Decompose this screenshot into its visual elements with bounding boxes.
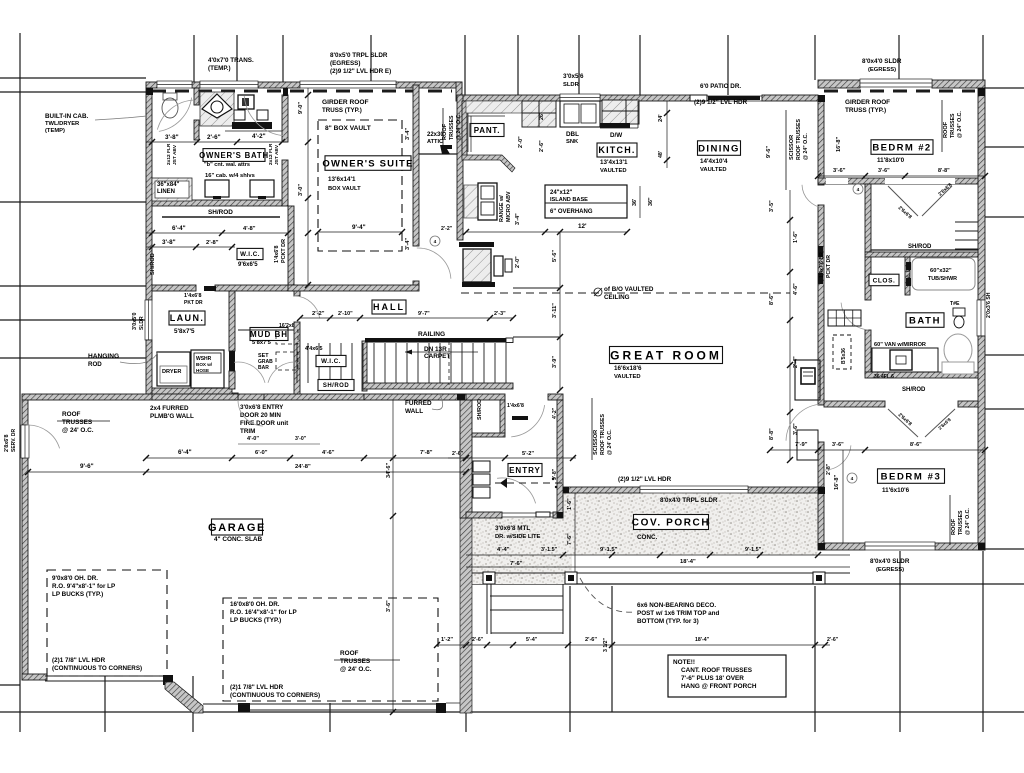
svg-text:LP BUCKS (TYP.): LP BUCKS (TYP.) [52,591,103,598]
bath seat boxes [234,110,245,120]
svg-text:2'8x6'8: 2'8x6'8 [4,434,10,452]
bedrm2 dim line y176 [818,175,985,177]
wall jog mud [232,393,238,400]
svg-text:4'-4": 4'-4" [497,547,510,553]
wall owners suite east seg2 [413,281,419,287]
svg-text:SH/ROD: SH/ROD [323,383,350,389]
svg-text:BEDRM #3: BEDRM #3 [881,471,942,482]
wall top-B seg3 [762,95,818,101]
svg-text:W.I.C.: W.I.C. [240,251,260,258]
svg-text:BAR: BAR [258,365,269,371]
entry front door w/ side lite [502,512,553,514]
svg-text:34'-6": 34'-6" [386,462,392,478]
wall east upper [978,88,985,300]
svg-text:7'-6" PLUS 18' OVER: 7'-6" PLUS 18' OVER [681,675,744,682]
svg-text:9'-1.5": 9'-1.5" [600,547,618,553]
svg-text:LAUN.: LAUN. [170,313,205,323]
porch dim line y567 [563,566,850,568]
ext line bedrm2 mid [898,35,900,80]
label BATH [906,313,944,328]
svg-text:6'-4": 6'-4" [172,225,186,232]
svg-text:(2)9 1/2" LVL HDR: (2)9 1/2" LVL HDR [694,99,748,106]
svg-text:9'-0": 9'-0" [298,102,304,114]
svg-text:2'-6": 2'-6" [452,451,464,457]
fireplace [795,360,820,400]
svg-text:(2)9 1/2" LVL HDR: (2)9 1/2" LVL HDR [618,476,672,483]
svg-text:ROOF: ROOF [951,518,957,535]
svg-text:BOX VAULT: BOX VAULT [328,186,361,192]
svg-text:4'4x6'5: 4'4x6'5 [305,346,323,352]
svg-text:B'5x36: B'5x36 [841,348,847,364]
svg-text:13'6x14'1: 13'6x14'1 [328,176,356,183]
wall bedrm2 closet west [865,184,871,252]
svg-text:3'-0": 3'-0" [295,436,307,442]
grid right y88 [985,87,1024,89]
grid line below garage east wall [465,713,467,732]
svg-text:PCKT DR: PCKT DR [281,239,287,263]
svg-text:SH/ROD: SH/ROD [908,244,932,250]
garage door2 dashed rect [223,598,438,701]
vaulted ceiling dashed centerline [461,292,790,294]
patio door opening [690,95,762,97]
ext line dining 1 [639,35,641,95]
entry dims [466,554,563,556]
ext line kitchen west [464,35,466,95]
wall top-C seg2 [932,80,985,88]
svg-text:60" VAN w/MIRROR: 60" VAN w/MIRROR [874,342,926,348]
svg-text:2'-3": 2'-3" [494,311,506,317]
svg-text:LP BUCKS (TYP.): LP BUCKS (TYP.) [230,617,281,624]
girder bearing dash line wing A [152,90,452,93]
hall dashed linen [833,335,851,369]
svg-text:4'-2": 4'-2" [252,133,266,140]
svg-text:2'-2": 2'-2" [441,226,453,232]
svg-text:PKT DR: PKT DR [184,300,203,306]
corner block garage door2 right [436,703,446,713]
svg-text:(EGRESS): (EGRESS) [330,60,360,67]
svg-text:7'-9": 7'-9" [795,442,808,448]
ext line shower wall [236,35,238,82]
bedrm3 dim line y450 [770,449,985,451]
svg-text:3'-6": 3'-6" [793,423,799,435]
svg-text:HANGING: HANGING [88,353,119,360]
svg-text:BUILT-IN CAB.: BUILT-IN CAB. [45,113,89,120]
ext line bedrm2 west [814,35,816,80]
bath door arc [841,303,868,330]
svg-text:16'6x18'6: 16'6x18'6 [614,365,642,372]
wall top-A seg2 [192,82,200,88]
door garage service [21,425,29,458]
label ENTRY [508,464,542,477]
svg-text:3'0x5'0: 3'0x5'0 [132,312,138,330]
svg-text:TRIM: TRIM [240,428,255,435]
svg-text:of B/O VAULTED: of B/O VAULTED [604,286,654,293]
window bedrm2 egress sldr [860,79,932,87]
porch slab edge line y573 [466,572,850,574]
svg-text:1'4x7'6 BR: 1'4x7'6 BR [819,252,825,278]
svg-text:6'-4": 6'-4" [178,449,192,456]
wall top-B seg2 [600,95,690,101]
wall great room south seg1 [563,487,640,493]
wall top-A seg1 [146,82,157,88]
svg-text:CLOS.: CLOS. [873,277,896,284]
garage dim line y458 [146,457,466,459]
svg-text:1'4x6'8: 1'4x6'8 [507,403,524,409]
wall garage south seg1 [22,674,47,680]
svg-text:TWL/DRYER: TWL/DRYER [45,121,80,127]
wall east lower [978,336,985,550]
fridge hatch [464,185,478,218]
wall garage west seg2 [22,458,28,680]
svg-text:8'0x5'0 TRPL SLDR: 8'0x5'0 TRPL SLDR [330,52,388,59]
porch dim verticals [574,493,576,573]
wall garage north [22,394,466,400]
svg-text:HOSE: HOSE [196,368,209,373]
wall kitchen west seg1 [457,95,463,240]
svg-text:2'-6": 2'-6" [827,637,839,643]
svg-text:ROOF: ROOF [943,121,949,138]
cabinet below fireplace [797,430,818,460]
service door arc [27,425,60,448]
svg-text:SH/ROD: SH/ROD [208,209,233,216]
wall top-A seg4 [396,82,462,88]
svg-text:18'-4": 18'-4" [695,637,710,643]
corner blocks [146,88,153,95]
pocket door mud [229,351,235,371]
svg-text:13'4x13'1: 13'4x13'1 [600,159,628,166]
svg-text:24': 24' [658,114,664,122]
grid line left y685 [0,684,20,686]
svg-text:3'-6": 3'-6" [832,442,844,448]
svg-text:2'-6": 2'-6" [207,134,221,141]
svg-text:4: 4 [851,476,854,482]
svg-text:2'-2": 2'-2" [312,311,325,317]
dim line owners bath [146,141,288,143]
svg-text:VAULTED: VAULTED [700,167,727,173]
covered porch concrete stipple [563,493,818,555]
svg-text:(EGRESS): (EGRESS) [876,567,904,573]
svg-text:9'0x8'0 OH. DR.: 9'0x8'0 OH. DR. [52,575,98,582]
svg-text:3'-4": 3'-4" [405,238,411,250]
svg-text:ROOF TRUSSES: ROOF TRUSSES [796,119,802,160]
wall bedrm3 closet front seg1 [824,401,885,407]
ext line toilet wall [193,35,195,82]
svg-text:TUB/SHWR: TUB/SHWR [928,276,957,282]
wall bedwing west seg3 [818,442,824,487]
svg-text:4'-6": 4'-6" [322,450,335,456]
grid right y355 [985,354,1024,356]
wall bath closet east [905,257,910,295]
svg-text:9'-4": 9'-4" [352,224,366,231]
svg-text:GREAT ROOM: GREAT ROOM [610,348,722,362]
svg-text:ATTIC: ATTIC [427,139,443,145]
svg-text:9'6x6'5: 9'6x6'5 [238,262,258,268]
wall bath west seg2 [865,330,871,375]
owners shower hatched [200,92,234,126]
svg-text:1'-2": 1'-2" [441,637,453,643]
svg-text:DR. w/SIDE LITE: DR. w/SIDE LITE [495,534,541,540]
stair risers [296,343,298,383]
svg-text:9'-1.5": 9'-1.5" [745,547,762,553]
vanity sink 1 [205,180,229,197]
svg-text:DRYER: DRYER [162,369,181,375]
grid line left y78 [0,77,146,79]
wall garage east / entry west [460,400,472,518]
label PANT [470,124,504,137]
ext line kitchen window [578,35,580,95]
svg-text:@ 24' O.C.: @ 24' O.C. [607,429,613,455]
wall bath south [865,372,978,378]
wall mud east seg1 [294,287,300,296]
svg-text:4: 4 [434,239,437,245]
svg-text:SNK: SNK [566,139,579,145]
wall west seg2 [146,340,152,394]
svg-text:FIRE DOOR unit: FIRE DOOR unit [240,420,289,427]
hall to great room arc [786,404,823,441]
kitchen dim line y232 [466,231,627,233]
kitchen counter hatch right of sink [602,100,639,124]
vanity sink 2 [250,180,274,197]
entry dim line y458 [448,457,576,459]
svg-text:24"x12": 24"x12" [550,190,573,196]
svg-text:RAILING: RAILING [418,331,445,338]
shower niche box [238,95,254,109]
hall dim line y318 [300,317,513,319]
svg-text:3'0x6'8 MTL: 3'0x6'8 MTL [495,525,530,532]
wall entry south seg2 [553,512,563,518]
svg-text:3'-5": 3'-5" [769,200,775,212]
dryer box [157,352,190,386]
svg-text:5'-2": 5'-2" [522,451,534,457]
svg-text:2'-0": 2'-0" [515,256,521,268]
svg-text:SH/ROD: SH/ROD [902,387,926,393]
hall linen shelves grid [828,310,861,326]
range/micro appliance [478,183,497,220]
owners bath door arcs [244,96,284,136]
svg-text:HALL: HALL [373,302,405,312]
entry closet stack boxes [473,461,490,472]
svg-text:W.I.C.: W.I.C. [321,358,341,365]
svg-text:(EGRESS): (EGRESS) [868,67,896,73]
wall bedwing west seg4 [818,487,824,545]
wall laundry/mud divider seg2 [229,371,235,389]
grid right y549 [985,548,1024,550]
svg-text:GARAGE: GARAGE [208,522,266,534]
furred wall under stairs [363,383,513,389]
svg-text:@ 24" O.C.: @ 24" O.C. [957,111,963,138]
svg-text:36": 36" [648,197,654,206]
svg-text:2'-0": 2'-0" [518,136,524,148]
label GARAGE [212,519,263,535]
svg-text:TRUSSES: TRUSSES [340,658,371,665]
svg-text:CANT. ROOF TRUSSES: CANT. ROOF TRUSSES [681,667,753,674]
mud bench line [238,329,294,331]
ext line east wall [982,35,984,80]
garage door1 dashed rect [47,570,167,676]
svg-text:2'-6": 2'-6" [539,140,545,152]
wall coat closet east [500,400,505,433]
toilet owners bath [162,98,178,118]
bedrm3 closet bifold doors [888,409,918,437]
wall great room south seg2 [748,487,818,493]
header coat closet [512,416,528,420]
front steps [490,595,563,597]
bath counter line [225,130,282,132]
svg-text:8'-6": 8'-6" [769,293,775,305]
svg-text:6'-0": 6'-0" [255,450,268,456]
wall toilet partition seg2 [194,120,199,140]
dishwasher dark band [600,123,630,128]
front dim line y645 [437,644,830,646]
svg-text:TRUSS (TYP.): TRUSS (TYP.) [845,107,886,114]
wall closet2/bath divider [865,252,978,257]
svg-text:@ 24' O.C.: @ 24' O.C. [340,666,372,673]
grid line below bedroom3 2 [982,551,984,732]
kitchen depth dims right [666,101,668,168]
svg-text:26': 26' [539,113,545,120]
wall entry north seg1 [466,394,505,400]
bath vanity [872,348,938,372]
entry door arcs [497,478,535,503]
kitchen counter hatch top [466,101,522,113]
shower diamond [202,94,232,118]
svg-text:2'0x3'6 SH: 2'0x3'6 SH [986,292,992,318]
svg-text:8'0x4'0 TRPL SLDR: 8'0x4'0 TRPL SLDR [660,497,718,504]
door tag circle owners suite [430,236,440,246]
svg-text:@ 24" O.C.: @ 24" O.C. [803,133,809,160]
wall top-A seg3 [258,82,300,88]
svg-text:4'-6": 4'-6" [793,283,799,295]
header owners bath door [283,88,288,96]
label OWNERS SUITE [325,156,411,171]
wall coat closet south [472,433,505,437]
svg-text:11'8x10'0: 11'8x10'0 [877,157,905,164]
wall owners bath south (vanity wall) [152,200,282,206]
svg-text:PCKT DR: PCKT DR [826,255,832,278]
svg-text:POST w/ 1x6 TRIM TOP and: POST w/ 1x6 TRIM TOP and [637,610,719,617]
svg-text:16'0x8'0 OH. DR.: 16'0x8'0 OH. DR. [230,601,280,608]
svg-text:PLMB'G WALL: PLMB'G WALL [150,413,194,420]
svg-text:11'6x10'6: 11'6x10'6 [882,487,910,494]
stair dashed line [448,341,450,385]
pocket door jamb hall 2 [818,273,823,284]
mud door arc to hall [294,296,320,318]
grid line below bedroom3 1 [899,551,901,732]
svg-text:8'0x4'0 SLDR: 8'0x4'0 SLDR [870,558,910,565]
svg-text:2x12 FLR: 2x12 FLR [166,143,172,165]
kitchen island [545,185,627,218]
label BEDRM2 [871,140,933,155]
svg-text:(2)1 7/8" LVL HDR: (2)1 7/8" LVL HDR [230,684,284,691]
svg-text:9'-6": 9'-6" [80,463,94,470]
label WIC [237,248,263,259]
dim line wic2 [146,246,235,248]
label GREAT ROOM [610,347,723,364]
svg-text:ROOF: ROOF [62,411,81,418]
label BEDRM3 [878,469,945,484]
svg-text:5'-6": 5'-6" [552,250,558,262]
svg-text:8'-6": 8'-6" [910,442,922,448]
wall wic east [288,206,294,287]
wall entry east [557,400,563,518]
svg-text:1'4x6'8: 1'4x6'8 [184,293,202,299]
great room west dim line [559,232,561,390]
svg-text:4'0x7'0 TRANS.: 4'0x7'0 TRANS. [208,57,254,64]
svg-text:CARPET: CARPET [424,353,450,360]
svg-text:BEDRM #2: BEDRM #2 [872,142,931,153]
svg-text:TRUSSES: TRUSSES [958,510,964,535]
washer box [191,350,224,388]
wall owners suite south [288,285,419,291]
window kitchen sldr [560,94,600,101]
svg-text:DINING: DINING [698,143,740,154]
railing thick bar [365,338,513,343]
svg-text:CEILING: CEILING [604,294,630,301]
grid line below porch 3 [814,586,816,732]
svg-text:SLDR: SLDR [139,316,145,330]
svg-text:SERV. DR: SERV. DR [11,429,17,452]
svg-text:SCISSOR: SCISSOR [789,135,795,160]
wall garage south jog diagonal [165,682,203,713]
grid right y217 [985,216,1024,218]
svg-text:TRUSS (TYP.): TRUSS (TYP.) [322,107,362,114]
grid line below garage 1 [104,676,106,732]
wall bedwing west seg2 [818,205,824,405]
grid line porch slab y584 [472,583,1024,585]
svg-text:8'-8": 8'-8" [938,168,950,174]
wall hall attic shelf [419,153,457,155]
svg-text:16" cab. w/4 shlvs: 16" cab. w/4 shlvs [205,173,255,179]
svg-text:JST ABV: JST ABV [172,144,178,165]
garage entry door arc [238,400,263,426]
wall mud east seg2 [294,322,300,394]
svg-text:D/W: D/W [610,132,622,139]
svg-text:ISLAND BASE: ISLAND BASE [550,197,588,203]
svg-text:BOX w/: BOX w/ [196,362,213,367]
svg-text:16'-8": 16'-8" [834,474,840,490]
svg-text:SCISSOR: SCISSOR [593,430,599,455]
svg-text:OWNER'S BATH: OWNER'S BATH [199,151,269,160]
grid line bottom y712 [0,711,1024,713]
dim ext line x393 [392,400,394,712]
grid line below porch 2 [611,586,613,712]
svg-text:R.O. 16'4"x8'-1" for LP: R.O. 16'4"x8'-1" for LP [230,609,297,616]
svg-text:2x4 FURRED: 2x4 FURRED [150,405,189,412]
svg-text:36': 36' [632,199,638,206]
great room east dim line [789,190,791,460]
svg-text:(CONTINUOUS TO CORNERS): (CONTINUOUS TO CORNERS) [230,692,320,699]
svg-text:JST ABV: JST ABV [274,144,280,165]
label HALL [372,300,406,314]
ext line trpl sldr [370,35,372,82]
svg-text:RANGE w/: RANGE w/ [499,195,505,222]
svg-text:FURRED: FURRED [405,400,432,407]
svg-text:TRUSSES: TRUSSES [449,115,455,140]
svg-text:2'-10": 2'-10" [338,311,353,317]
grid line left y358 [0,357,146,359]
corner block garage south jog [163,675,173,685]
label shrod stairs [318,380,354,391]
wall laundry/mud divider seg1 [229,291,235,351]
window laundry sldr [145,300,152,340]
svg-text:(2)9 1/2" LVL HDR E): (2)9 1/2" LVL HDR E) [330,68,391,75]
bath corner seat [944,334,972,366]
window bedrm3 egress sldr [865,542,935,550]
wall stair south / garage north [364,394,466,400]
svg-text:6" OVERHANG: 6" OVERHANG [550,209,593,215]
svg-text:2'-8": 2'-8" [826,463,832,475]
svg-text:PANT.: PANT. [474,126,501,135]
